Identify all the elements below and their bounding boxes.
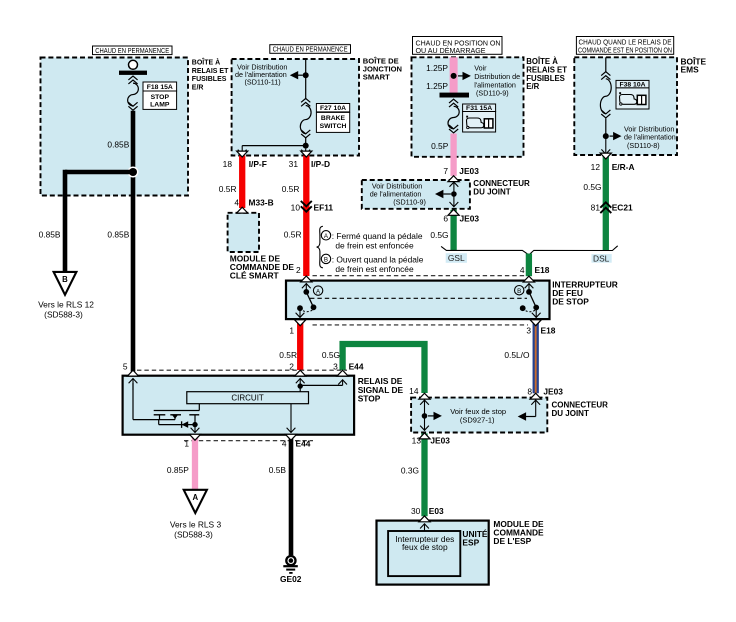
- svg-text:SWITCH: SWITCH: [320, 123, 347, 130]
- junction dot below fuse: [305, 138, 307, 146]
- svg-text:0.5B: 0.5B: [269, 465, 287, 475]
- connector dashed line above relay (E44): [137, 369, 347, 371]
- connector nib: [295, 320, 306, 326]
- connector nib: [337, 370, 348, 376]
- battery terminal circle: [129, 60, 138, 69]
- svg-text:E18: E18: [535, 265, 550, 275]
- connector nib: [419, 516, 430, 522]
- connector nib: [127, 370, 138, 376]
- joint connector pass-through arrows: [453, 182, 455, 194]
- connector nib: [189, 434, 200, 440]
- node dot in joint connector: [451, 191, 457, 197]
- svg-text:DSL: DSL: [593, 254, 610, 264]
- svg-text:0.5P: 0.5P: [431, 141, 449, 151]
- switch coupling dashed line: [310, 297, 527, 299]
- svg-text:CHAUD QUAND LE RELAIS DE: CHAUD QUAND LE RELAIS DE: [579, 40, 672, 47]
- ground GE02: [286, 556, 295, 565]
- svg-text:I/P-D: I/P-D: [311, 159, 330, 169]
- fuse icons (car + doc): [467, 118, 484, 128]
- connector dashed line below relay (E44): [184, 440, 313, 442]
- svg-text:: Fermé quand la pédale: : Fermé quand la pédale: [332, 231, 423, 241]
- svg-text:(SD588-3): (SD588-3): [174, 530, 213, 540]
- svg-text:0.5R: 0.5R: [219, 184, 237, 194]
- label: CHAUD EN PERMANENCE (second): [270, 45, 351, 54]
- svg-text:SMART: SMART: [363, 73, 390, 82]
- wire 0.5R left (I/P-F): [239, 156, 245, 209]
- svg-text:0.5R: 0.5R: [279, 350, 297, 360]
- svg-text:0.5L/O: 0.5L/O: [504, 350, 530, 360]
- smart key module dashed box: [228, 213, 259, 252]
- fuse F18 15A: [128, 76, 137, 80]
- relay internal pin arrows: [132, 378, 134, 390]
- wire branch to triangle B: [65, 170, 133, 175]
- svg-text:GE02: GE02: [280, 574, 302, 584]
- wire 0.5G to pin 4 E18: [526, 254, 532, 277]
- svg-text:1.25P: 1.25P: [426, 63, 448, 73]
- svg-text:JE03: JE03: [459, 166, 479, 176]
- wire 0.85P to triangle A: [192, 435, 198, 489]
- connector nib: [419, 433, 430, 439]
- connector nib: [523, 276, 534, 282]
- wire 0.5R switch to relay: [297, 321, 303, 370]
- inline connector 81 EC21: [600, 202, 611, 207]
- note B: [321, 254, 330, 263]
- svg-text:E18: E18: [541, 325, 556, 335]
- svg-text:7: 7: [443, 166, 448, 176]
- svg-text:COMMANDE EST EN POSITION ON: COMMANDE EST EN POSITION ON: [578, 48, 672, 55]
- svg-text:E/R: E/R: [192, 84, 204, 91]
- DSL tag: [592, 254, 612, 263]
- wire 0.5B to ground: [289, 435, 294, 555]
- svg-text:E03: E03: [429, 506, 444, 516]
- stop signal relay box: [123, 376, 355, 435]
- fuse/relay box E/R (middle) - dashed box: [412, 57, 524, 157]
- svg-text:5: 5: [123, 362, 128, 372]
- connector nib: [448, 209, 459, 215]
- svg-text:10: 10: [291, 203, 301, 213]
- blue wire joint arrow: [535, 400, 537, 417]
- svg-text:0.5G: 0.5G: [322, 350, 340, 360]
- svg-text:E/R-A: E/R-A: [612, 162, 635, 172]
- svg-text:OU AU DÉMARRAGE: OU AU DÉMARRAGE: [416, 46, 486, 55]
- svg-text:CHAUD EN PERMANENCE: CHAUD EN PERMANENCE: [273, 47, 348, 54]
- note A: [321, 231, 330, 240]
- bus bar: [119, 71, 147, 75]
- svg-text:(SD110-11): (SD110-11): [245, 78, 281, 87]
- branch wire to pin 18: [242, 145, 306, 147]
- svg-text:0.85B: 0.85B: [107, 229, 129, 239]
- svg-text:: Ouvert quand la pédale: : Ouvert quand la pédale: [332, 255, 424, 265]
- CIRCUIT output to pin 4: [290, 404, 292, 433]
- transistor Q1 (relay driver): [132, 383, 134, 420]
- connector nib: [600, 153, 611, 159]
- svg-text:EMS: EMS: [681, 65, 700, 75]
- svg-text:STOP: STOP: [151, 94, 170, 101]
- svg-text:18: 18: [223, 159, 233, 169]
- svg-text:I/P-F: I/P-F: [249, 159, 267, 169]
- svg-text:de frein est enfoncée: de frein est enfoncée: [335, 264, 414, 274]
- junction dot: [128, 167, 139, 178]
- svg-text:31: 31: [289, 159, 299, 169]
- CIRCUIT block: [187, 392, 309, 404]
- svg-text:feux de stop: feux de stop: [402, 542, 448, 552]
- svg-text:M33-B: M33-B: [249, 198, 274, 208]
- svg-text:EF11: EF11: [314, 203, 334, 213]
- connector nib: [530, 320, 541, 326]
- label: CHAUD QUAND LE RELAIS DE COMMANDE EST EN POSITION ON: [576, 37, 673, 55]
- wire 0.5G (DSL): [603, 156, 609, 251]
- svg-text:2: 2: [289, 362, 294, 372]
- arrow to note: [435, 190, 443, 198]
- svg-text:F31 15A: F31 15A: [466, 105, 492, 112]
- svg-text:(SD588-3): (SD588-3): [44, 310, 83, 320]
- svg-text:Vers le RLS 12: Vers le RLS 12: [38, 300, 94, 310]
- label: CHAUD EN POSITION ON OU AU DEMARRAGE: [413, 37, 503, 55]
- svg-text:de frein est enfoncée: de frein est enfoncée: [335, 241, 414, 251]
- connector nib: [301, 276, 312, 282]
- fuse/relay box E/R (left) - dashed box: [41, 58, 189, 196]
- svg-text:0.5R: 0.5R: [282, 184, 300, 194]
- pin 31 exit arrow: [305, 149, 307, 155]
- svg-text:8: 8: [527, 386, 532, 396]
- joint connector (top) dashed box: [362, 180, 470, 209]
- svg-text:DE STOP: DE STOP: [552, 296, 589, 306]
- fuse F38 10A: [601, 72, 610, 76]
- node dot on feed line: [303, 72, 309, 78]
- svg-text:B: B: [62, 275, 68, 284]
- svg-text:2: 2: [296, 265, 301, 275]
- svg-text:F27 10A: F27 10A: [320, 105, 346, 112]
- connector nib: [448, 176, 459, 182]
- connector nib: [530, 393, 541, 399]
- connector dashed line above switch: [313, 275, 526, 277]
- node dot on 1.25P: [451, 73, 457, 79]
- svg-text:RELAIS ET: RELAIS ET: [192, 68, 229, 75]
- connector nib: [419, 393, 430, 399]
- wire 0.85B main vertical: [131, 111, 136, 372]
- svg-text:(SD110-8): (SD110-8): [627, 141, 660, 150]
- svg-text:4: 4: [234, 198, 239, 208]
- svg-text:B: B: [517, 288, 521, 295]
- svg-text:DU JOINT: DU JOINT: [552, 409, 589, 418]
- EMS box - dashed box: [574, 57, 677, 155]
- svg-text:(SD110-9): (SD110-9): [393, 198, 426, 207]
- svg-text:3: 3: [333, 362, 338, 372]
- connector nib: [285, 434, 296, 440]
- switch contact B: [528, 283, 530, 292]
- svg-text:Vers le RLS 3: Vers le RLS 3: [170, 519, 222, 529]
- wire 0.5R right (I/P-D): [303, 156, 309, 277]
- arrow to note: [290, 71, 298, 79]
- connector nib: [301, 151, 312, 157]
- off-page triangle A: [184, 490, 207, 513]
- svg-text:E44: E44: [349, 362, 364, 372]
- svg-text:F18 15A: F18 15A: [147, 84, 173, 91]
- svg-text:1: 1: [184, 439, 189, 449]
- svg-text:GSL: GSL: [448, 253, 465, 263]
- svg-text:4: 4: [520, 265, 525, 275]
- svg-text:81: 81: [591, 202, 601, 212]
- pin 18 exit arrow: [241, 146, 243, 155]
- wire 0.5P: [450, 134, 456, 176]
- ESP control module box: [377, 521, 489, 585]
- svg-text:1: 1: [289, 325, 294, 335]
- diode in transistor: [158, 420, 160, 425]
- svg-text:STOP: STOP: [358, 394, 381, 404]
- connector nib: [237, 151, 248, 157]
- joint pass-through arrows: [424, 400, 426, 416]
- svg-text:14: 14: [409, 386, 419, 396]
- svg-text:0.3G: 0.3G: [401, 465, 419, 475]
- svg-text:0.5R: 0.5R: [284, 229, 302, 239]
- label: CHAUD EN PERMANENCE (left): [93, 46, 173, 55]
- wire 0.5G relay to joint connector: [343, 344, 425, 393]
- svg-text:EC21: EC21: [612, 202, 633, 212]
- GSL/DSL merge bracket: [441, 246, 618, 255]
- fuse F31 15A: [449, 99, 458, 103]
- drain to pin 1: [194, 415, 196, 425]
- svg-text:0.5G: 0.5G: [430, 230, 448, 240]
- wire feed line: [305, 59, 307, 100]
- svg-text:DE L'ESP: DE L'ESP: [493, 536, 531, 546]
- svg-text:A: A: [192, 493, 198, 502]
- svg-text:BRAKE: BRAKE: [321, 115, 346, 122]
- pin 12 exit arrow: [605, 136, 607, 154]
- joint connector (bottom) dashed box: [411, 398, 547, 433]
- svg-text:CHAUD EN PERMANENCE: CHAUD EN PERMANENCE: [95, 48, 169, 55]
- fuse F27 10A: [301, 98, 310, 102]
- svg-text:JE03: JE03: [460, 214, 480, 224]
- svg-text:E/R: E/R: [526, 82, 539, 91]
- svg-text:JE03: JE03: [430, 436, 450, 446]
- svg-text:B: B: [324, 257, 328, 264]
- wire 1.25P feed: [450, 57, 458, 93]
- wire 0.5L/O blue/orange: [533, 321, 539, 394]
- wire 0.5G (GSL): [450, 210, 456, 251]
- svg-text:0.85P: 0.85P: [167, 465, 189, 475]
- svg-text:30: 30: [411, 506, 421, 516]
- wire 0.3G to ESP: [421, 433, 427, 516]
- svg-text:0.85B: 0.85B: [107, 140, 129, 150]
- svg-text:BOÎTE À: BOÎTE À: [192, 58, 220, 67]
- svg-text:CIRCUIT: CIRCUIT: [231, 393, 264, 402]
- ESP internal arrow: [424, 524, 426, 532]
- svg-text:E44: E44: [296, 439, 311, 449]
- svg-text:1.25P: 1.25P: [426, 81, 448, 91]
- svg-text:JE03: JE03: [543, 386, 563, 396]
- node dot on EMS line: [605, 118, 607, 136]
- switch contact A: [305, 283, 307, 292]
- svg-text:FUSIBLES: FUSIBLES: [192, 76, 227, 83]
- connector dashed line below switch: [313, 324, 529, 326]
- connector nib: [237, 207, 248, 213]
- svg-text:ESP: ESP: [462, 537, 479, 547]
- feed line into fuse: [605, 57, 607, 72]
- stop lamp switch block inside ESP: [388, 531, 460, 576]
- svg-text:0.5G: 0.5G: [583, 182, 601, 192]
- svg-text:DU JOINT: DU JOINT: [473, 188, 510, 197]
- svg-text:LAMP: LAMP: [150, 102, 170, 109]
- connector nib: [295, 370, 306, 376]
- GSL tag: [446, 253, 467, 263]
- svg-text:CLÉ SMART: CLÉ SMART: [230, 269, 280, 280]
- svg-text:0.85B: 0.85B: [39, 229, 61, 239]
- svg-text:3: 3: [526, 325, 531, 335]
- inline connector 10 EF11: [301, 206, 312, 211]
- stop lamp switch box: [286, 281, 550, 320]
- note brace: [317, 226, 323, 267]
- svg-text:CHAUD EN POSITION ON: CHAUD EN POSITION ON: [416, 40, 501, 47]
- smart junction box - dashed box: [232, 59, 359, 156]
- svg-text:(SD927-1): (SD927-1): [460, 415, 495, 424]
- fuse icons (car + doc): [620, 95, 637, 105]
- off-page triangle B: [54, 272, 77, 295]
- bus bar: [440, 93, 470, 98]
- svg-text:4: 4: [282, 439, 287, 449]
- svg-text:(SD110-9): (SD110-9): [476, 89, 509, 98]
- svg-text:12: 12: [591, 162, 601, 172]
